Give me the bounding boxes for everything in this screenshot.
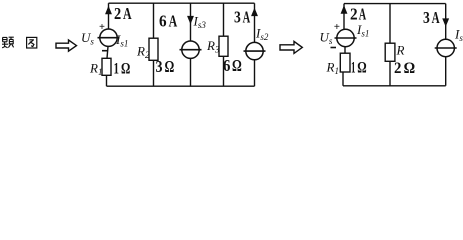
svg-text:Ω: Ω: [121, 61, 130, 78]
resistor R1 (left): [102, 58, 111, 75]
current arrow 2A (up): [106, 7, 112, 15]
transform arrow 1: [56, 40, 77, 51]
current arrow 3A right (down): [443, 19, 449, 26]
svg-text:A: A: [169, 12, 178, 31]
right circuit: bottom wire: [343, 85, 446, 87]
svg-text:1: 1: [114, 61, 120, 78]
resistor R2: [149, 38, 158, 60]
svg-text:3: 3: [234, 8, 241, 27]
resistor R: [385, 43, 395, 61]
current source Is1 (right): [337, 29, 354, 46]
transform arrow 2: [280, 41, 302, 53]
wire: branch4 R3: [223, 3, 225, 86]
current arrow Is3 (down): [188, 16, 194, 23]
wire: right branch2 R: [389, 4, 391, 86]
svg-text:Ω: Ω: [357, 60, 367, 77]
svg-text:A: A: [432, 8, 440, 27]
resistor R1 (right): [340, 53, 350, 72]
wire: branch2 R2: [153, 3, 155, 86]
right circuit: top wire: [344, 3, 446, 5]
polarity minus (right Us): [331, 47, 337, 49]
svg-text:Ω: Ω: [232, 56, 242, 75]
wire: branch1 top segment (corner to source): [108, 3, 110, 29]
svg-text:Ω: Ω: [404, 60, 416, 77]
svg-text:1: 1: [351, 60, 356, 77]
svg-text:A: A: [359, 5, 367, 24]
wire: branch3 Is3: [190, 3, 192, 86]
caption 图: [27, 37, 37, 48]
wire: R1 to bottom: [106, 75, 108, 86]
svg-text:3: 3: [156, 57, 163, 76]
wire: right branch1 top segment: [343, 4, 345, 30]
svg-text:2: 2: [114, 4, 121, 23]
svg-text:6: 6: [223, 56, 230, 75]
polarity minus (left Us): [102, 50, 108, 52]
resistor R3: [219, 36, 228, 56]
svg-text:+: +: [99, 22, 105, 33]
caption 题: [2, 37, 14, 48]
svg-text:R: R: [396, 43, 405, 58]
svg-text:2: 2: [394, 60, 401, 77]
svg-text:2: 2: [350, 5, 358, 24]
svg-text:3: 3: [423, 8, 430, 27]
svg-text:A: A: [123, 4, 132, 23]
current arrow 3A (up): [252, 9, 258, 16]
current source Is1 (left): [100, 29, 117, 46]
svg-text:+: +: [334, 21, 340, 33]
wire: right branch3 Is: [445, 4, 447, 86]
svg-text:Ω: Ω: [165, 57, 175, 76]
svg-text:6: 6: [159, 12, 167, 31]
wire: R1 to bottom (right): [342, 72, 344, 86]
current source Is (right): [437, 39, 454, 56]
current source Is2: [246, 42, 263, 59]
svg-text:A: A: [243, 8, 251, 27]
wire: source to R1 (right): [344, 47, 346, 54]
current arrow 2A right (up): [341, 6, 347, 14]
current source Is3: [182, 41, 199, 58]
wire: branch5 Is2: [254, 3, 256, 86]
left circuit: top wire: [109, 2, 255, 4]
wire: source to R1: [107, 46, 108, 58]
left circuit: bottom wire: [107, 85, 255, 87]
